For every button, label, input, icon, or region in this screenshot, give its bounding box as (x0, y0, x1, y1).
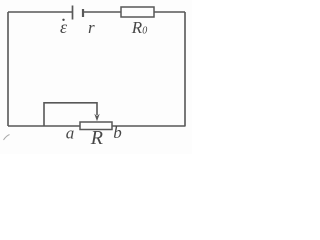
svg-text:R0: R0 (131, 18, 147, 37)
svg-text:b: b (113, 123, 122, 142)
svg-text:R: R (90, 127, 103, 149)
svg-text:a: a (66, 124, 75, 143)
svg-text:r: r (88, 18, 95, 37)
